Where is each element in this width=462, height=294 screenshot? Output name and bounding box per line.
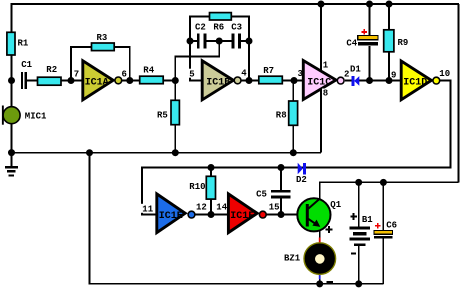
node IC1B output	[246, 77, 253, 84]
node top rail pin1	[318, 1, 325, 8]
wire IC1B output to R7	[241, 80, 259, 82]
transistor Q1	[297, 198, 330, 231]
node R4/R5	[172, 77, 179, 84]
wire node up to C2/C3 midpoint	[175, 41, 219, 81]
node bottom B1	[355, 280, 362, 287]
op-amp IC1E bubble	[188, 211, 195, 218]
svg-text:9: 9	[391, 70, 396, 80]
svg-text:R3: R3	[97, 33, 108, 43]
wire IC1A output to R4	[122, 80, 140, 82]
node C1/R1	[8, 77, 15, 84]
op-amp IC1C	[303, 61, 336, 100]
plus C4	[361, 29, 367, 35]
wire B1 bottom	[358, 246, 360, 284]
node +V B1	[355, 179, 362, 186]
microphone MIC1	[2, 106, 20, 125]
op-amp IC1B bubble	[234, 77, 241, 84]
svg-text:IC1C: IC1C	[307, 77, 331, 88]
node C2/C3 mid	[216, 38, 223, 45]
wire R5 bottom to ground rail	[174, 125, 176, 153]
wire R6 right / C3 right	[231, 17, 249, 81]
node R5 ground	[172, 149, 179, 156]
wire node to R8 top	[292, 81, 294, 102]
resistor R9	[384, 30, 394, 52]
svg-text:IC1E: IC1E	[159, 211, 183, 222]
node MIC1 ground	[8, 149, 15, 156]
wire BZ1 bottom (black part)	[319, 279, 321, 284]
wire C2-C3 middle	[207, 40, 232, 42]
wire BZ1 bottom blue segment	[319, 274, 321, 280]
resistor R10	[206, 176, 215, 199]
svg-text:R10: R10	[189, 182, 205, 192]
node R8 ground	[290, 149, 297, 156]
node bottom BZ1	[316, 280, 323, 287]
svg-text:R5: R5	[157, 111, 168, 121]
node top rail C4	[366, 1, 373, 8]
node ground bottom drop	[86, 149, 93, 156]
node R10 top	[208, 164, 215, 171]
svg-text:10: 10	[439, 69, 450, 79]
svg-text:C6: C6	[386, 220, 397, 230]
wire R10 bottom	[210, 199, 212, 214]
wire R10 top	[210, 168, 212, 177]
op-amp IC1D	[401, 61, 431, 100]
wire C1 node to MIC1	[11, 81, 13, 108]
svg-text:R2: R2	[46, 65, 57, 75]
capacitor C2	[197, 34, 207, 49]
svg-text:R4: R4	[143, 66, 154, 76]
op-amp IC1D bubble	[433, 77, 440, 84]
wire IC1D output feedback	[142, 81, 451, 215]
battery B1	[349, 226, 370, 246]
svg-text:IC1A: IC1A	[85, 77, 109, 88]
wire left rail	[11, 4, 13, 32]
op-amp IC1E	[157, 194, 185, 233]
svg-text:12: 12	[196, 202, 207, 212]
wire R8 bottom to ground rail	[292, 125, 294, 152]
svg-text:IC1F: IC1F	[230, 211, 254, 222]
op-amp IC1B	[202, 61, 233, 100]
wire C3 right stub	[241, 40, 249, 42]
wire right rail	[458, 4, 460, 182]
wire C2 left node	[190, 40, 197, 42]
svg-text:C3: C3	[231, 22, 242, 32]
wire Q1 emitter to BZ1 (black part)	[319, 230, 321, 239]
plus C6	[375, 223, 380, 228]
wire C6 bottom	[382, 239, 384, 284]
svg-text:Q1: Q1	[330, 200, 341, 210]
wire C6 top	[382, 182, 384, 230]
wire IC1C pin 8 / pin 1 vertical	[320, 4, 322, 153]
resistor R5	[171, 100, 179, 124]
resistor R3	[92, 43, 115, 51]
node C5 bottom	[278, 211, 285, 218]
svg-text:R6: R6	[213, 22, 224, 32]
svg-text:7: 7	[74, 70, 79, 80]
wire IC1F output to Q1 base	[266, 214, 306, 216]
resistor R1	[7, 32, 15, 55]
op-amp IC1F bubble	[259, 211, 266, 218]
svg-text:D1: D1	[350, 65, 361, 75]
node IC1A output	[126, 77, 133, 84]
buzzer BZ1	[304, 243, 336, 275]
wire B1 top	[358, 182, 360, 226]
plus B1	[350, 213, 357, 220]
resistor R4	[140, 76, 164, 84]
resistor R7	[259, 76, 283, 84]
wire C4 top	[369, 4, 371, 36]
op-amp IC1A bubble	[115, 77, 122, 84]
wire C5 top	[280, 168, 282, 191]
wire R9 bottom	[388, 52, 390, 81]
capacitor C4 electrolytic	[358, 36, 378, 46]
svg-text:15: 15	[269, 202, 280, 212]
wire IC1C output to D1	[345, 80, 352, 82]
label white backings	[141, 60, 329, 213]
node R10 bottom	[208, 211, 215, 218]
node C3 right	[246, 38, 253, 45]
wire bottom rail left drop	[90, 153, 384, 284]
node top rail R9	[386, 1, 393, 8]
op-amp IC1C bubble	[337, 77, 344, 84]
node +V C6	[380, 179, 387, 186]
svg-text:R1: R1	[18, 39, 29, 49]
wire R1 bottom to C1 node	[11, 55, 13, 81]
node C5 top	[278, 164, 285, 171]
wire R3 feedback right	[114, 47, 130, 81]
wire ground rail	[12, 152, 322, 154]
resistor R6	[210, 13, 232, 20]
svg-text:BZ1: BZ1	[284, 254, 301, 264]
node R7/R8	[291, 77, 298, 84]
capacitor C3	[232, 34, 241, 49]
wire +V line to Q1 collector	[320, 182, 459, 200]
svg-text:C5: C5	[256, 190, 267, 200]
wire R7 to IC1C input	[282, 80, 303, 82]
svg-text:3: 3	[298, 69, 303, 79]
node C2 left	[187, 38, 194, 45]
wire R4 to node	[163, 80, 175, 82]
svg-text:IC1B: IC1B	[206, 77, 230, 88]
op-amp IC1F	[228, 194, 257, 233]
capacitor C1	[21, 72, 27, 89]
wire IC1E output to IC1F input	[195, 214, 227, 216]
wire node to R5 top	[174, 81, 176, 101]
wire Q1 emitter red segment	[319, 238, 321, 244]
svg-text:6: 6	[122, 69, 127, 79]
wire MIC1 to ground node	[11, 124, 13, 153]
ground	[5, 166, 18, 177]
op-amp IC1A	[83, 61, 113, 100]
resistor R2	[38, 77, 62, 85]
capacitor C5	[271, 190, 290, 198]
svg-text:MIC1: MIC1	[25, 112, 47, 122]
node R9 bottom	[386, 77, 393, 84]
svg-text:1: 1	[323, 61, 329, 71]
svg-text:11: 11	[142, 205, 153, 215]
svg-text:2: 2	[344, 69, 349, 79]
diode D2	[298, 163, 306, 175]
svg-text:5: 5	[189, 70, 194, 80]
svg-text:R8: R8	[276, 111, 287, 121]
minus B1	[351, 252, 356, 254]
wire R3 feedback left	[71, 47, 92, 81]
wire ground stub	[11, 153, 13, 166]
node D1/C4	[366, 77, 373, 84]
svg-text:8: 8	[323, 89, 328, 99]
wire R2 to IC1A input	[61, 80, 83, 82]
wire C4 bottom	[369, 46, 371, 81]
svg-text:C2: C2	[195, 22, 206, 32]
resistor R8	[289, 101, 298, 125]
wire C1 to R2	[27, 80, 38, 82]
diode D1	[352, 76, 360, 86]
svg-text:C1: C1	[21, 60, 32, 70]
svg-text:D2: D2	[296, 175, 307, 185]
node IC1A input	[68, 77, 75, 84]
wire R6 left / C2 left / pin5	[190, 17, 210, 81]
svg-text:IC1D: IC1D	[403, 78, 427, 89]
wire C5 bottom	[280, 198, 282, 214]
svg-text:B1: B1	[362, 215, 373, 225]
plus Q1 emitter	[326, 226, 333, 233]
minus BZ1	[327, 281, 334, 283]
svg-text:R7: R7	[263, 66, 274, 76]
wire top rail	[11, 3, 460, 5]
wire D1 to IC1D input	[359, 80, 401, 82]
svg-text:4: 4	[241, 68, 247, 78]
wire R9 top	[388, 4, 390, 30]
svg-text:14: 14	[216, 202, 227, 212]
capacitor C6 electrolytic	[374, 231, 392, 239]
svg-text:R9: R9	[398, 38, 409, 48]
svg-text:C4: C4	[346, 38, 357, 48]
